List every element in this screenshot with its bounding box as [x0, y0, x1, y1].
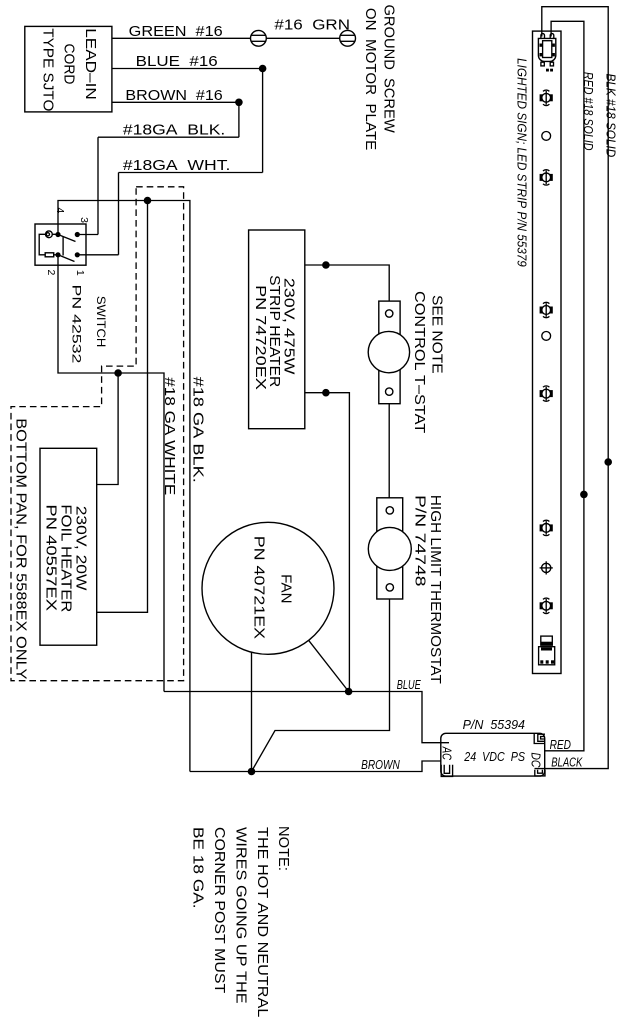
wire #18ga wht. [119, 157, 263, 255]
ground screw on motor plate [340, 4, 398, 150]
svg-text:LIGHTED SIGN; LED STRIP P/N 55: LIGHTED SIGN; LED STRIP P/N 55379 [515, 58, 530, 267]
svg-text:24 VDC PS: 24 VDC PS [463, 749, 525, 764]
svg-text:NOTE:: NOTE: [275, 826, 292, 871]
svg-text:BROWN: BROWN [361, 757, 400, 772]
lead-in cord box [25, 26, 112, 112]
strip plain circle 1 [542, 132, 551, 141]
svg-text:SWITCH: SWITCH [94, 296, 108, 348]
svg-text:SEE NOTE: SEE NOTE [428, 295, 445, 374]
svg-text:#18 GA BLK.: #18 GA BLK. [190, 377, 207, 483]
wire blk #18 solid [535, 7, 619, 769]
switch terminal dots [55, 232, 80, 258]
node: blue to #18ga wht drop [259, 65, 267, 173]
svg-text:CORD: CORD [61, 44, 78, 85]
LED lamp 3 [540, 302, 553, 317]
svg-text:BLACK: BLACK [551, 755, 583, 770]
node: brown to #18ga blk drop [235, 99, 243, 138]
svg-text:FAN: FAN [277, 574, 294, 603]
svg-text:PN 74720EX: PN 74720EX [252, 285, 269, 390]
wire blue (bottom) [164, 677, 449, 743]
lighted sign LED strip P/N 55379 [515, 31, 562, 673]
svg-text:THE HOT AND NEUTRAL: THE HOT AND NEUTRAL [254, 827, 271, 1017]
screw terminal 1 [251, 30, 267, 46]
svg-text:2: 2 [45, 269, 57, 275]
svg-text:WIRES GOING UP THE: WIRES GOING UP THE [233, 827, 250, 1004]
dashed outline: bottom pan / corner post [11, 187, 184, 681]
fan lead to blue [309, 640, 349, 691]
switch internal wiring [39, 234, 58, 255]
wire: terminal 3 riser [77, 234, 98, 236]
strip circle-cross [540, 561, 553, 574]
svg-text:GROUND SCREW: GROUND SCREW [380, 4, 397, 133]
svg-text:BLUE #16: BLUE #16 [136, 53, 218, 70]
node: hot branch to foil heater [97, 197, 151, 613]
label high limit thermostat [412, 495, 445, 684]
svg-text:PN 40721EX: PN 40721EX [250, 536, 267, 639]
LED lamp 2 [540, 170, 553, 185]
svg-text:#18GA WHT.: #18GA WHT. [123, 157, 230, 174]
svg-text:#18 GA WHITE: #18 GA WHITE [161, 377, 178, 495]
svg-text:TYPE SJTO: TYPE SJTO [40, 28, 57, 111]
svg-text:RED: RED [550, 737, 571, 752]
label see note control t-stat [411, 291, 445, 433]
svg-text:4: 4 [54, 207, 66, 213]
LED lamp 4 [540, 386, 553, 401]
high limit thermostat P/N 74748 [368, 498, 411, 599]
svg-text:RED #18 SOLID: RED #18 SOLID [581, 72, 596, 151]
control t-stat [368, 301, 409, 404]
svg-text:CORNER POST MUST: CORNER POST MUST [211, 827, 228, 993]
wire #18ga blk. [98, 122, 239, 235]
svg-text:P/N 74748: P/N 74748 [412, 495, 429, 587]
fan lead to brown [251, 652, 253, 771]
switch internal resistor [45, 253, 54, 257]
svg-text:DC: DC [529, 752, 544, 768]
svg-text:PN 42532: PN 42532 [70, 285, 84, 364]
strip heater box PN 74720EX [249, 230, 305, 429]
node: branch to foil heater top [97, 369, 122, 484]
svg-text:BROWN #16: BROWN #16 [125, 87, 222, 104]
svg-text:3: 3 [78, 217, 90, 223]
wire: control t-stat to high limit t-stat [388, 404, 390, 498]
svg-text:BE 18 GA.: BE 18 GA. [189, 827, 206, 909]
switch internal lamp [46, 231, 53, 238]
LED lamp 5 [540, 520, 553, 535]
switch pole blades [58, 235, 76, 262]
svg-text:CONTROL T–STAT: CONTROL T–STAT [411, 291, 428, 433]
wire green #16 [112, 17, 350, 40]
fan PN 40721EX [202, 522, 334, 654]
wire: hot from terminal 4 (corner post #18 GA BLK.) [58, 201, 190, 772]
wire: strip heater bottom down to blue node [305, 389, 350, 692]
strip plain circle 2 [542, 332, 551, 341]
wire: strip heater top to control t-stat [305, 261, 389, 301]
foil heater box PN 40557EX [40, 448, 97, 645]
svg-text:ON MOTOR PLATE: ON MOTOR PLATE [362, 8, 379, 150]
24 VDC power supply P/N 55394 [440, 717, 545, 776]
wire brown #16 [112, 87, 239, 104]
wire: terminal 1 riser [77, 254, 118, 256]
wire brown (bottom) [190, 757, 441, 776]
svg-text:BOTTOM PAN, FOR 5588EX ONLY: BOTTOM PAN, FOR 5588EX ONLY [13, 418, 30, 679]
svg-text:GREEN #16: GREEN #16 [129, 23, 223, 40]
svg-text:#16 GRN: #16 GRN [274, 17, 350, 34]
LED strip top connector [538, 34, 555, 72]
svg-text:LEAD–IN: LEAD–IN [82, 28, 99, 100]
svg-text:PN 40557EX: PN 40557EX [43, 504, 60, 611]
svg-text:#18GA BLK.: #18GA BLK. [123, 122, 225, 139]
LED lamp 6 [540, 598, 553, 613]
note text [189, 826, 292, 1017]
LED lamp 1 [540, 90, 553, 105]
LED strip bottom connector [539, 636, 555, 665]
svg-text:HIGH LIMIT THERMOSTAT: HIGH LIMIT THERMOSTAT [427, 495, 444, 684]
wire: switched from terminal 2 (corner post #18 GA WHITE) [58, 255, 164, 692]
svg-text:BLUE: BLUE [397, 677, 421, 692]
svg-text:P/N 55394: P/N 55394 [463, 717, 525, 732]
wire blue #16 [112, 53, 263, 70]
wire: high limit bottom to brown node [252, 599, 390, 772]
svg-text:AC: AC [440, 746, 455, 760]
wire red #18 solid [545, 21, 597, 751]
switch PN 42532 [35, 224, 108, 364]
svg-text:1: 1 [74, 270, 86, 276]
PS terminal hooks [441, 733, 545, 776]
svg-text:BLK #18 SOLID: BLK #18 SOLID [603, 73, 618, 157]
